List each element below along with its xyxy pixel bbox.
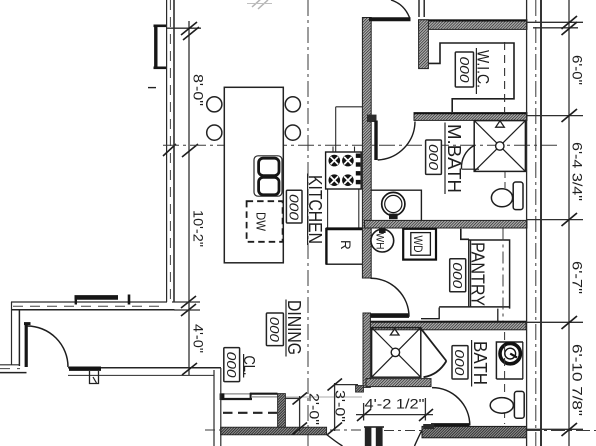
dim 3'-0" line — [334, 383, 336, 431]
svg-text:DW: DW — [254, 212, 269, 232]
W.I.C. door leaf (vertical, at top edge) — [418, 0, 420, 17]
M.BATH toilet bowl — [491, 189, 512, 207]
dim 4'-2 1/2" ticks — [357, 409, 371, 421]
sink bowl 2 — [259, 177, 279, 194]
svg-text:W.I.C.: W.I.C. — [474, 50, 493, 88]
door tag 000 (BATH) — [452, 346, 468, 379]
jamb U-notch below bottom wall — [90, 371, 99, 384]
BATH label underline — [471, 340, 473, 387]
small jamb mark on bottom wall — [128, 295, 131, 305]
BATH shower pan — [372, 328, 421, 378]
M.BATH plumbing centerline dashed — [504, 172, 506, 189]
entry left door arc (cut at bottom) — [326, 434, 343, 446]
window tag 000 (island sink) — [286, 190, 302, 223]
svg-text:000: 000 — [426, 144, 441, 171]
M.BATH shower door arc — [461, 146, 474, 169]
tick at centerline y150 on wall — [163, 144, 176, 156]
BATH shower folding door — [421, 328, 447, 361]
sink bowl 1 — [259, 158, 279, 175]
right wall vertical double line — [526, 0, 528, 446]
M.BATH door swing arc — [378, 122, 415, 161]
washer/dryer WD box — [403, 229, 436, 260]
svg-text:6'-0": 6'-0" — [570, 55, 586, 85]
tick pair at y302/y310 — [181, 296, 196, 308]
pantry bottom shelf line — [439, 306, 509, 308]
counter sides below cooktop — [327, 189, 329, 228]
dishwasher DW dashed box — [247, 201, 283, 242]
M.BATH vanity counter — [371, 190, 422, 220]
entry right door arc (cut at bottom) — [415, 430, 422, 446]
wall M.BATH top horizontal (hatched) — [414, 113, 527, 121]
W.I.C. interior outline — [429, 43, 514, 112]
window tag 000 (dining) — [266, 313, 283, 346]
svg-text:4'-2 1/2": 4'-2 1/2" — [365, 396, 425, 412]
burner 1 — [329, 155, 341, 167]
svg-text:WD: WD — [411, 236, 423, 253]
cooktop checker strip — [356, 154, 361, 185]
BATH door leaf — [431, 423, 470, 428]
svg-text:000: 000 — [267, 317, 282, 343]
M.BATH door leaf — [374, 121, 377, 161]
PANTRY label underline — [470, 241, 472, 308]
right extension line y=22 — [527, 21, 583, 23]
svg-text:4'-0": 4'-0" — [191, 324, 207, 353]
entry door (bottom-left) leaf — [24, 324, 31, 367]
wall hall bottom / BATH top (hatched) — [363, 321, 526, 330]
svg-text:000: 000 — [224, 352, 239, 379]
vertical passage lines at x214/x221 — [213, 370, 215, 446]
header bar in bottom wall — [69, 367, 101, 371]
BATH shower drain — [391, 348, 399, 356]
svg-text:R: R — [338, 240, 353, 250]
M.BATH shower head triangle — [496, 121, 505, 127]
right tick y219 — [562, 213, 578, 226]
hall door swing arc — [371, 278, 410, 317]
window in bottom wall (dark bar) — [75, 297, 119, 304]
right extension line y=115 — [527, 115, 583, 117]
kitchen counter edge — [336, 106, 362, 108]
right extension line y=322 — [527, 321, 583, 323]
BATH shower head triangle — [390, 329, 399, 335]
M.BATH shower pan — [474, 121, 525, 172]
burner 3 — [329, 174, 341, 186]
CL. label underline — [243, 354, 245, 378]
wall left corner down to lower-left exit — [0, 302, 27, 373]
svg-text:M.BATH: M.BATH — [444, 124, 464, 193]
BATH lavatory bowl (thick ring) — [500, 343, 520, 363]
extension line at y28 — [167, 27, 201, 29]
entry double door posts — [365, 428, 372, 446]
closet rod dashed — [223, 412, 277, 414]
closet CL top wall — [221, 398, 252, 400]
tick at centerline y150 on dim line — [182, 144, 198, 157]
right tick y322 — [562, 316, 578, 329]
wall bottom-left horizontal exterior — [11, 302, 175, 310]
svg-text:3'-0": 3'-0" — [333, 390, 349, 422]
BATH lavatory counter — [496, 342, 523, 379]
svg-text:BATH: BATH — [470, 341, 490, 385]
right tick y115 — [562, 109, 578, 122]
M.BATH toilet tank — [513, 182, 523, 210]
cooktop box — [326, 152, 362, 189]
kitchen island — [224, 87, 283, 262]
window in left wall (bracket) — [154, 25, 167, 69]
BATH toilet tank — [514, 391, 524, 418]
svg-text:DINING: DINING — [284, 300, 304, 355]
wall below BATH shower (hatched) — [366, 379, 431, 387]
pantry centerline (dash-dot) — [502, 229, 504, 322]
pantry interior outline — [468, 239, 470, 306]
wall kitchen/hall vertical (hatched) — [362, 18, 371, 279]
M.BATH shower drain — [496, 142, 504, 150]
svg-text:8'-0": 8'-0" — [191, 74, 207, 106]
dash-dot line y=430 segments — [205, 429, 221, 431]
BATH plumbing centerline dashed — [504, 332, 506, 424]
closet bottom wall (hatched dark) — [221, 427, 327, 435]
right tick y22 — [562, 16, 578, 29]
pantry right step — [497, 309, 499, 322]
dim 2'-0" ticks — [293, 393, 308, 405]
closet CL right wall (hatched) — [278, 394, 286, 431]
wall left of BATH shower vertical (hatched) — [363, 313, 370, 387]
DINING label underline — [285, 300, 287, 357]
tick at bottom y369 — [182, 363, 197, 375]
centerline horizontal y=145 — [163, 144, 557, 146]
dim 3'-0" ticks — [328, 379, 343, 391]
centerline vertical x=308 — [307, 0, 309, 446]
BATH door swing arc — [432, 388, 470, 426]
svg-text:6'-10 7/8": 6'-10 7/8" — [570, 344, 586, 416]
door tag 000 (CL) — [224, 348, 240, 382]
dimension line left (x=189) — [188, 21, 190, 375]
M.BATH lavatory — [382, 192, 405, 215]
door tag 000 (M.BATH) — [426, 140, 442, 174]
burner 2 — [342, 155, 354, 167]
wall bottom (thin double) from door to closet — [68, 368, 221, 376]
entry door (bottom-left) swing arc — [27, 326, 68, 367]
right tick y429 — [562, 423, 578, 436]
wall W.I.C. left vertical (hatched) — [419, 20, 429, 69]
BATH toilet bowl — [490, 398, 513, 414]
stub wall left of closet top — [356, 386, 364, 393]
water heater WH circle — [371, 229, 394, 252]
W.I.C. closet rod (dashed) — [504, 42, 506, 112]
pantry left jamb — [461, 229, 469, 240]
svg-text:KITCHEN: KITCHEN — [305, 175, 325, 244]
svg-text:PANTRY: PANTRY — [468, 242, 488, 306]
wall M.BATH bottom horizontal (hatched) — [364, 220, 527, 228]
kitchen sink outer — [254, 156, 282, 196]
svg-text:6'-4 3/4": 6'-4 3/4" — [570, 142, 586, 201]
corner stub at kitchen wall / M.BATH door — [367, 115, 377, 122]
right centerline dash-dot x=539 — [535, 0, 537, 446]
right extension line y=429 — [527, 428, 583, 430]
window sill tick on left wall — [148, 87, 156, 89]
dim 4'-2 1/2" extension lines — [363, 403, 365, 421]
tick pair at top of 8'-0" — [181, 22, 197, 35]
gray ticks at top edge — [252, 0, 262, 7]
wall W.I.C. top horizontal (hatched) — [419, 20, 527, 30]
header bar over hall opening (top) — [369, 17, 411, 21]
island stool circles — [207, 97, 222, 112]
wall left-vertical exterior (double line with dashes) — [167, 0, 174, 302]
svg-text:6'-7": 6'-7" — [570, 261, 586, 294]
bottom wall right of entry (hatched dark) — [422, 426, 526, 437]
right dimension line x=569 — [568, 0, 570, 446]
dim 2'-0" line — [299, 396, 301, 431]
W.I.C. label underline — [475, 48, 477, 94]
M.BATH label underline — [444, 123, 446, 195]
svg-text:000: 000 — [457, 57, 472, 84]
svg-text:WH: WH — [374, 233, 386, 250]
svg-text:000: 000 — [450, 262, 465, 289]
svg-text:CL.: CL. — [240, 356, 257, 376]
svg-text:10'-2": 10'-2" — [191, 210, 207, 247]
svg-text:000: 000 — [452, 349, 467, 376]
W.I.C. door swing arc (top, cut) — [391, 0, 410, 18]
dim 4'-2 1/2" line — [356, 414, 433, 416]
hall step above bath wall — [421, 308, 439, 319]
svg-text:2'-0": 2'-0" — [307, 393, 323, 425]
hall door leaf (to dining) — [371, 313, 410, 318]
refrigerator R box — [326, 229, 363, 265]
right extension line y=219 — [527, 219, 583, 221]
KITCHEN label underline — [307, 174, 309, 246]
window tag 000 (W.I.C.) — [455, 52, 473, 87]
door tag 000 (pantry) — [450, 259, 466, 292]
svg-text:000: 000 — [287, 194, 302, 221]
burner 4 — [342, 174, 354, 186]
